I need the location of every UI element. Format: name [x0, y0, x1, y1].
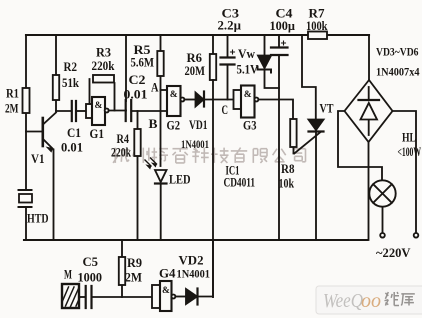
resistor R8 + G3 output wire — [258, 100, 296, 191]
wire A down to LED — [160, 90, 162, 166]
watermark company text — [112, 148, 306, 163]
wire rail to SCR anode — [302, 35, 316, 119]
svg-text:C2: C2 — [129, 72, 146, 87]
svg-text:&: & — [170, 90, 178, 100]
svg-text:5.1V: 5.1V — [237, 62, 259, 77]
svg-text:HTD: HTD — [27, 212, 49, 226]
svg-text:100µ: 100µ — [270, 18, 296, 33]
wire bridge left vertex to lamp — [338, 111, 382, 180]
svg-text:VD1: VD1 — [189, 117, 208, 132]
svg-text:VT: VT — [320, 101, 334, 116]
NAND gate G4 — [152, 266, 176, 312]
node B wire — [132, 111, 167, 131]
svg-text:<100W: <100W — [398, 145, 422, 159]
resistor R1 — [5, 86, 30, 116]
resistor R9 — [119, 240, 143, 297]
resistor R5 — [131, 35, 164, 90]
terminals ~220V — [376, 233, 418, 260]
wire top rail — [26, 34, 369, 36]
capacitor C4 — [270, 6, 296, 241]
wire rail to C2 — [125, 35, 127, 101]
svg-text:2M: 2M — [5, 101, 19, 116]
svg-text:G1: G1 — [90, 126, 105, 141]
lamp HL — [369, 130, 421, 234]
wire left rail — [25, 35, 27, 240]
svg-text:C5: C5 — [83, 254, 99, 269]
wire bridge bottom to bottom rail — [368, 142, 370, 240]
svg-text:VD2: VD2 — [179, 253, 204, 268]
IC1 label — [224, 164, 256, 190]
svg-text:C1: C1 — [67, 125, 81, 140]
svg-text:R2: R2 — [64, 59, 78, 74]
wire R6 down to lower circuit — [212, 80, 214, 297]
NAND gate G2 — [167, 86, 185, 133]
resistor R2 — [53, 35, 80, 111]
zener diode VW — [237, 35, 280, 88]
svg-text:G2: G2 — [167, 118, 181, 133]
node C label — [222, 102, 229, 117]
resistor R4 — [111, 111, 141, 240]
resistor R3 feedback — [90, 45, 116, 111]
wire rail to bridge top — [368, 35, 370, 80]
svg-text:R8: R8 — [281, 161, 295, 176]
svg-text:51k: 51k — [62, 75, 80, 90]
capacitor C3 — [218, 6, 242, 100]
svg-text:2M: 2M — [125, 270, 142, 285]
svg-text:2.2µ: 2.2µ — [218, 18, 242, 33]
svg-text:&: & — [95, 101, 103, 111]
svg-text:R1: R1 — [6, 86, 19, 101]
resistor R7 — [306, 6, 328, 40]
diode VD1 — [181, 92, 234, 152]
capacitor C2 — [124, 72, 148, 121]
svg-text:oo: oo — [361, 290, 381, 312]
svg-text:CD4011: CD4011 — [224, 176, 256, 190]
piezo HTD — [19, 190, 49, 226]
bridge rectifier VD3-VD6 — [345, 45, 420, 143]
svg-text:C: C — [222, 102, 229, 117]
transistor V1 — [26, 113, 56, 241]
NAND gate G1 — [86, 97, 126, 141]
svg-text:10k: 10k — [279, 176, 295, 191]
wire bottom rail — [24, 239, 367, 241]
wire bridge right vertex to right rail — [393, 111, 417, 233]
svg-text:V1: V1 — [31, 151, 45, 166]
resistor R6 — [185, 35, 217, 80]
NAND gate G3 — [234, 86, 259, 133]
LED — [145, 158, 191, 240]
svg-text:220k: 220k — [111, 145, 132, 160]
svg-text:B: B — [149, 116, 158, 131]
svg-text:0.01: 0.01 — [61, 140, 83, 155]
microphone M — [62, 267, 85, 309]
svg-text:20M: 20M — [185, 63, 206, 78]
capacitor C5 — [78, 254, 153, 308]
thyristor VT — [294, 101, 333, 241]
svg-text:Vw: Vw — [238, 46, 256, 61]
diode VD2 — [175, 240, 213, 305]
svg-text:G3: G3 — [243, 118, 257, 133]
capacitor C1 — [56, 101, 86, 155]
svg-text:220k: 220k — [92, 58, 116, 73]
svg-text:LED: LED — [169, 172, 191, 187]
svg-text:&: & — [162, 286, 170, 296]
watermark WeeQoo box — [316, 286, 422, 314]
svg-text:1N4001: 1N4001 — [181, 137, 209, 151]
svg-text:5.6M: 5.6M — [131, 55, 155, 70]
svg-text:1N4001: 1N4001 — [177, 267, 211, 281]
svg-text:1000: 1000 — [78, 271, 103, 285]
svg-text:&: & — [244, 90, 252, 100]
svg-text:HL: HL — [402, 130, 416, 145]
svg-text:M: M — [64, 267, 72, 282]
svg-text:WeeQ: WeeQ — [323, 290, 363, 312]
svg-text:A: A — [151, 80, 159, 95]
svg-text:100k: 100k — [306, 18, 328, 33]
svg-text:R9: R9 — [127, 255, 142, 270]
svg-text:~220V: ~220V — [376, 245, 411, 260]
svg-text:0.01: 0.01 — [124, 87, 148, 102]
svg-text:1N4007x4: 1N4007x4 — [376, 65, 420, 79]
svg-text:G4: G4 — [159, 266, 176, 281]
svg-text:VD3~VD6: VD3~VD6 — [376, 45, 419, 59]
node A — [151, 80, 167, 95]
